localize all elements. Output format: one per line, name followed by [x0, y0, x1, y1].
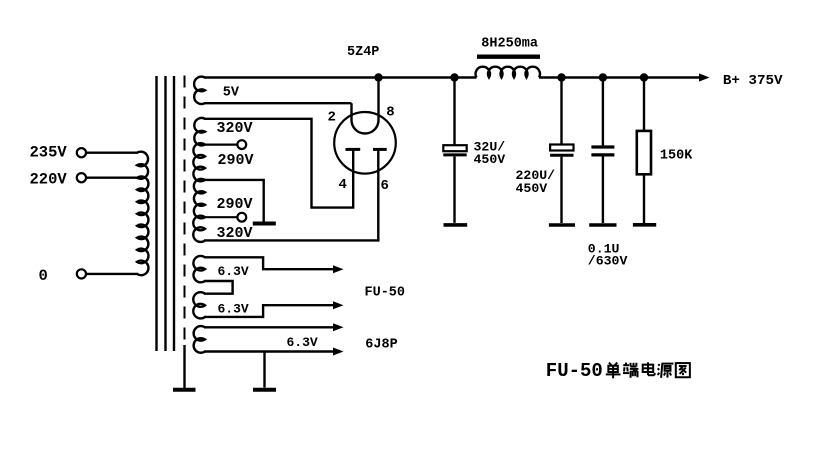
wire shield to ground	[183, 345, 185, 388]
svg-text:5V: 5V	[223, 86, 240, 101]
wire C2 to ground	[560, 157, 562, 223]
svg-text:290V: 290V	[218, 152, 254, 169]
secondary 6.3V winding #1	[193, 256, 205, 282]
secondary 6.3V winding #2	[193, 292, 205, 318]
svg-text:5Z4P: 5Z4P	[347, 45, 379, 60]
junction pin 8 / B+ rail	[374, 73, 382, 81]
wire 6.3V #1 bottom to #2 top (series link)	[204, 281, 233, 294]
ground (C2)	[549, 223, 575, 227]
junction C2 / B+ rail	[557, 73, 565, 81]
capacitor C3 0.1U/630V top plate	[591, 145, 614, 148]
wire B+ rail (choke to output arrow)	[539, 76, 701, 78]
svg-text:320V: 320V	[217, 225, 253, 242]
wire B+ to C3	[602, 78, 604, 146]
secondary 5V winding	[194, 77, 205, 104]
wire B+ to C2	[560, 78, 562, 145]
resistor R1 150K	[637, 131, 651, 174]
wire HV bottom 320V lead to plate pin 6	[204, 149, 378, 240]
secondary 6.3V winding #3	[194, 326, 205, 353]
wire HV center tap to ground	[204, 180, 264, 222]
svg-text:450V: 450V	[474, 152, 506, 167]
svg-text:290V: 290V	[217, 196, 253, 213]
choke L1 8H250ma winding	[476, 67, 540, 78]
capacitor C2 minus plate	[550, 154, 573, 157]
transformer T1 core laminations	[157, 76, 175, 351]
capacitor C3 bottom plate	[591, 153, 614, 156]
svg-text:FU-50: FU-50	[365, 285, 406, 300]
svg-text:6J8P: 6J8P	[365, 338, 397, 353]
svg-text:6: 6	[381, 178, 389, 194]
wire 6.3V #2 bottom lead to FU-50 arrow	[204, 305, 334, 317]
ground (C1)	[444, 223, 468, 227]
wire B+ to C1	[453, 78, 455, 146]
svg-text:FU-50: FU-50	[546, 360, 603, 382]
transformer T1 electrostatic shield (dashed)	[184, 76, 186, 346]
svg-text:235V: 235V	[30, 144, 68, 162]
wire 290V tap (lower)	[204, 216, 237, 218]
svg-text:6.3V: 6.3V	[287, 335, 318, 350]
terminal 290V upper (open)	[237, 140, 246, 149]
svg-text:6.3V: 6.3V	[218, 264, 249, 279]
arrowhead 6J8P heater b	[333, 348, 344, 356]
wire 235V lead	[86, 151, 138, 153]
wire 0 lead	[86, 273, 138, 275]
wire R1 to ground	[643, 174, 645, 223]
svg-text:220V: 220V	[30, 170, 68, 188]
wire B+ rail (5V top lead to choke)	[204, 76, 477, 78]
B+ output arrowhead	[699, 73, 710, 81]
svg-text:8H250ma: 8H250ma	[481, 36, 538, 51]
svg-text:2: 2	[328, 110, 336, 126]
wire HV top 320V lead to plate pin 4	[204, 119, 353, 208]
secondary HV winding 320V-290V-0-290V-320V	[193, 118, 205, 242]
wire 6.3V #1 top lead to FU-50 arrow	[204, 257, 334, 269]
svg-text:0: 0	[39, 267, 48, 285]
wire C3 to ground	[602, 157, 604, 224]
arrowhead FU-50 heater b	[333, 301, 344, 309]
arrowhead 6J8P heater a	[333, 323, 344, 331]
svg-text:4: 4	[339, 177, 347, 193]
svg-text:B+ 375V: B+ 375V	[723, 73, 783, 89]
svg-text:150K: 150K	[660, 149, 693, 164]
svg-text:8: 8	[386, 105, 394, 121]
capacitor C2 220U/450V plus plate	[550, 145, 573, 151]
wire C1 to ground	[453, 156, 455, 223]
junction R1 / B+ rail	[640, 73, 648, 81]
wire B+ to R1	[643, 78, 645, 132]
ground (HV center tap)	[253, 222, 276, 226]
choke L1 core bar	[477, 55, 540, 59]
terminal 290V lower (open)	[237, 213, 246, 222]
tube U1 plate (pin 6)	[373, 148, 387, 151]
primary winding (235V/220V/0)	[137, 152, 148, 276]
svg-text:6.3V: 6.3V	[218, 301, 249, 316]
capacitor C1 minus plate	[443, 153, 466, 156]
tube U1 5Z4P envelope	[334, 112, 396, 174]
wire 6.3V #3 top lead to 6J8P arrow	[204, 326, 334, 328]
svg-text:450V: 450V	[516, 181, 548, 196]
terminal 220V	[77, 173, 86, 182]
ground (R1)	[633, 223, 656, 227]
ground (heater winding)	[253, 388, 276, 392]
wire 6.3V #3 to ground	[263, 352, 265, 388]
label 单端电源图 (title, drawn glyphs)	[606, 362, 690, 378]
arrowhead FU-50 heater a	[333, 265, 344, 273]
tube U1 plate (pin 4)	[346, 148, 361, 151]
wire 6.3V #3 bottom lead to 6J8P arrow	[204, 350, 334, 352]
terminal 0	[77, 269, 86, 278]
ground (C3)	[589, 223, 616, 227]
ground (shield)	[173, 388, 196, 392]
junction C3 / B+ rail	[599, 73, 607, 81]
svg-text:320V: 320V	[217, 120, 253, 137]
tube U1 filament (pins 2,8)	[352, 78, 379, 134]
capacitor C1 32U/450V plus plate	[443, 145, 466, 151]
wire 5V bottom lead to pin 2	[204, 102, 352, 104]
junction C1 / B+ rail	[450, 73, 458, 81]
wire 290V tap (upper)	[204, 144, 237, 146]
svg-text:/630V: /630V	[588, 254, 628, 269]
terminal 235V	[77, 148, 86, 157]
wire 220V lead	[86, 176, 138, 178]
